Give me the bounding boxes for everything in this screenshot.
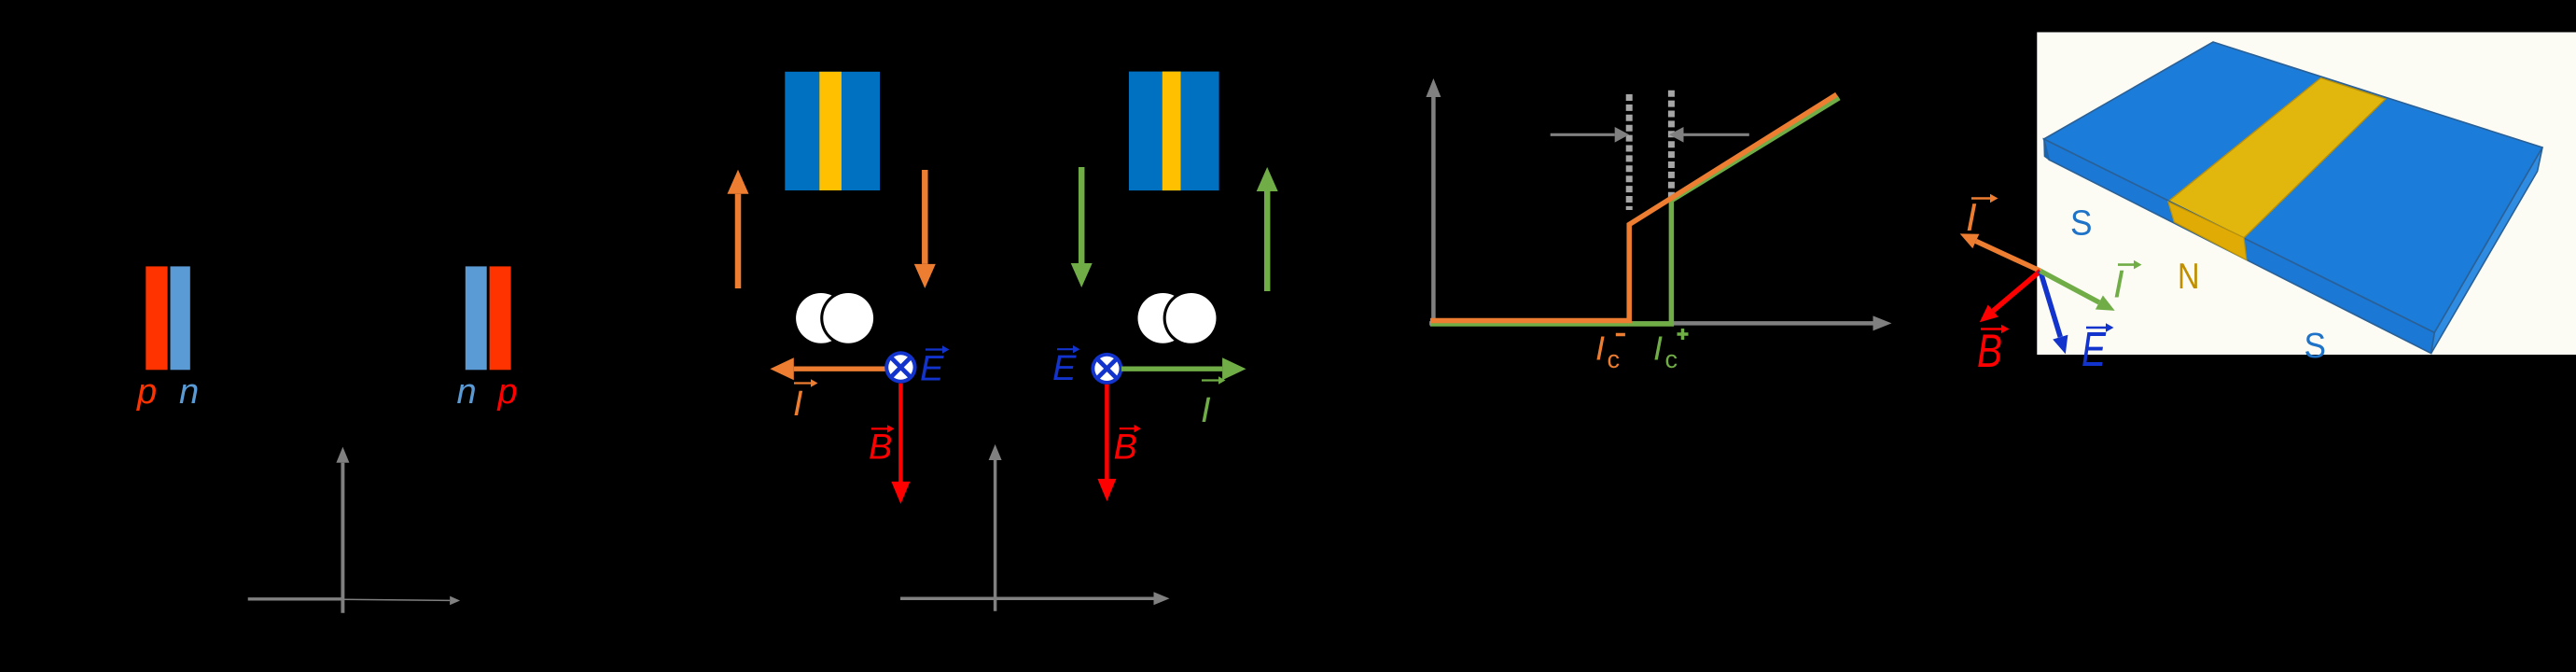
svg-text:c: c [1665, 345, 1678, 373]
svg-text:n: n [457, 372, 477, 412]
gray arrow pointing left at dotted lines [1669, 127, 1749, 143]
white panel background [2037, 33, 2576, 356]
svg-text:E: E [1052, 349, 1077, 388]
slab front face [2044, 139, 2435, 354]
IV x axis [1429, 315, 1892, 330]
svg-text:p: p [497, 372, 518, 412]
svg-text:E: E [2082, 323, 2107, 377]
svg-text:p: p [136, 372, 157, 412]
svg-text:I: I [1201, 391, 1211, 430]
dotted guide line at Ic plus [1668, 91, 1675, 199]
p-type bar right junction [490, 266, 511, 370]
label I device 2 [1201, 376, 1226, 430]
label B device 2 [1114, 425, 1142, 467]
panel a horizontal axis thick segment [248, 597, 343, 600]
junction bar 2 blue body [1129, 72, 1219, 191]
p-type bar left junction [146, 266, 167, 370]
vortex pair device 1 left circle [796, 293, 846, 343]
orange down arrow device 1 [914, 170, 936, 288]
label E device 1 [920, 345, 950, 388]
E symbol circled cross device 2 [1091, 353, 1122, 385]
slab top face [2044, 42, 2542, 332]
svg-text:n: n [179, 372, 199, 412]
svg-text:c: c [1608, 345, 1621, 373]
label I device 1 [793, 379, 818, 424]
vortex pair device 2 right circle [1163, 290, 1219, 346]
vector I green panel d [2040, 271, 2115, 311]
slab left end sliver [2044, 140, 2050, 160]
slab top yellow stripe N region [2168, 78, 2386, 238]
n-type bar right junction [466, 266, 487, 370]
B arrow device 1 red [891, 384, 910, 504]
label E blue panel d [2082, 323, 2114, 377]
vortex pair device 2 left circle [1138, 293, 1189, 343]
current arrow device 1 orange left [770, 357, 896, 380]
panel b y axis arrow [989, 444, 1002, 611]
vector B red panel d [1980, 271, 2040, 322]
slab front yellow stripe [2168, 202, 2247, 260]
svg-text:N: N [2178, 257, 2200, 297]
E symbol circled cross device 1 [884, 351, 916, 383]
orange I-V curve [1430, 94, 1837, 320]
svg-text:I: I [1966, 195, 1977, 239]
label Ic minus [1595, 329, 1625, 374]
svg-text:B: B [1977, 325, 2002, 377]
gray arrow pointing right at dotted lines [1551, 127, 1630, 143]
orange up arrow device 1 [728, 170, 749, 288]
svg-text:I: I [1595, 329, 1605, 368]
vortex pair device 1 right circle [820, 290, 876, 346]
label Ic plus [1653, 329, 1689, 373]
green up arrow device 2 [1257, 167, 1278, 291]
svg-text:I: I [793, 385, 803, 424]
vector I orange panel d [1960, 233, 2040, 271]
junction bar 1 yellow stripe [819, 72, 842, 190]
slab right end face [2431, 147, 2542, 354]
label E device 2 [1052, 345, 1080, 388]
label I orange panel d [1966, 194, 1998, 239]
svg-text:S: S [2070, 204, 2093, 244]
svg-text:B: B [869, 428, 892, 468]
green I-V curve [1430, 98, 1839, 324]
label B red panel d [1977, 325, 2010, 377]
svg-text:B: B [1114, 427, 1137, 467]
B arrow device 2 red [1097, 385, 1116, 501]
dotted guide line at Ic minus [1626, 94, 1633, 210]
junction bar 2 yellow stripe [1163, 72, 1181, 191]
junction bar 1 blue body [785, 72, 880, 190]
svg-text:I: I [2113, 262, 2124, 306]
panel a y axis arrow [336, 447, 349, 613]
svg-text:I: I [1653, 329, 1663, 368]
current arrow device 2 green right [1121, 357, 1246, 380]
green down arrow device 2 [1071, 167, 1093, 287]
n-type bar left junction [171, 266, 190, 370]
IV y axis [1426, 78, 1441, 326]
label I green panel d [2113, 260, 2142, 306]
label B device 1 [869, 425, 895, 467]
vector E blue panel d [2040, 271, 2068, 354]
svg-text:E: E [920, 350, 944, 389]
svg-text:S: S [2304, 327, 2327, 366]
panel b x axis arrow [900, 592, 1170, 605]
panel a x axis arrow [343, 596, 460, 606]
